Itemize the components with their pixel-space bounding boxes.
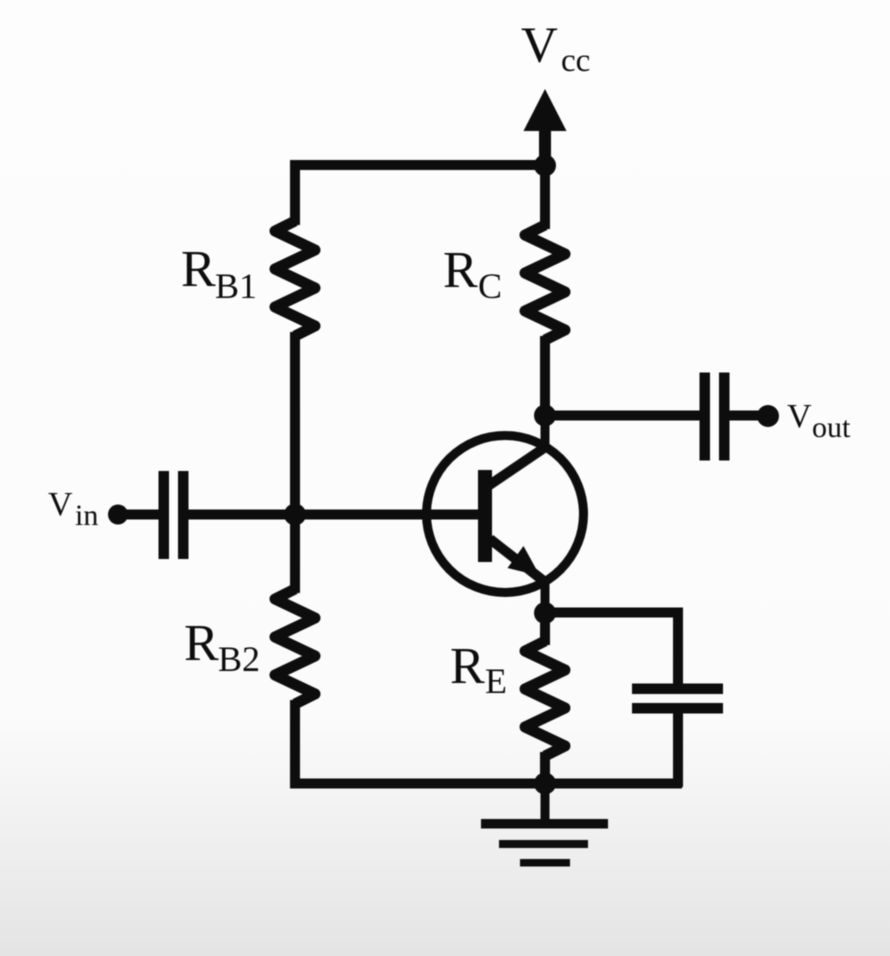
transistor Q1 [427,416,584,615]
node collector junction [534,405,556,427]
wire collector node to output capacitor [541,411,700,421]
capacitor C-E (emitter bypass) [632,684,723,714]
svg-text:R: R [450,638,485,695]
capacitor C-out (output coupling) [700,373,730,461]
wire output capacitor to Vout terminal [728,411,766,421]
wire input capacitor to base node [188,510,299,520]
label RB1 [181,241,257,306]
node base junction [284,504,306,526]
svg-text:R: R [184,615,219,672]
svg-text:C: C [478,266,502,306]
node emitter junction [534,602,556,624]
wire bypass capacitor to bottom rail [673,708,683,787]
label RE [450,638,507,701]
svg-text:B1: B1 [215,266,257,306]
label RB2 [184,615,260,679]
svg-text:V: V [787,398,812,435]
capacitor C-in (input coupling) [159,471,189,559]
svg-text:out: out [812,411,851,444]
label Vin [48,486,98,532]
wire top rail from left rail to Vcc node [295,165,545,174]
resistor RC [525,225,565,340]
terminal Vin [108,505,128,525]
wire left rail middle (RB1 to base node) [290,332,300,519]
wire Vin terminal to input capacitor [117,510,160,520]
wire base node to transistor base [291,510,480,520]
wire right rail top (Vcc node to RC) [540,163,550,229]
wire left rail bottom (RB2 to bottom rail) [295,700,545,784]
resistor RB2 [275,589,315,704]
label Vout [787,398,851,444]
svg-text:V: V [48,486,73,523]
power symbol Vcc arrow [524,89,567,170]
svg-text:R: R [443,242,478,299]
svg-text:E: E [485,661,507,701]
svg-text:V: V [521,18,558,74]
wire right rail (RC to collector node) [540,336,550,420]
wire left rail lower (base node to RB2) [290,511,300,593]
resistor RE [525,641,565,756]
wire left rail upper (top rail to RB1) [290,164,300,225]
label Vcc [521,18,590,79]
svg-text:cc: cc [561,43,590,79]
label RC [443,242,502,306]
node ground junction [534,773,556,795]
wire bottom rail right (ground node to bypass branch) [545,779,682,789]
node Vcc junction [534,155,556,177]
svg-text:R: R [181,241,216,298]
terminal Vout [757,405,779,427]
svg-text:B2: B2 [218,639,260,679]
ground [481,782,608,867]
wire RE to ground node [540,752,550,787]
wire emitter node to bypass branch [545,613,678,690]
wire emitter node to RE [540,609,550,645]
svg-text:in: in [75,499,98,532]
resistor RB1 [275,221,315,336]
